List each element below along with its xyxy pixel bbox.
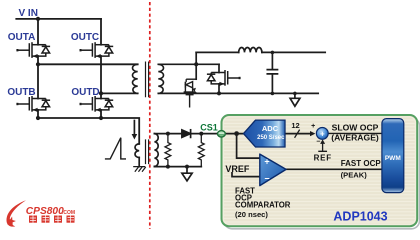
diode D1 xyxy=(182,130,191,137)
wire Q5 drain vertical xyxy=(218,64,220,72)
node Q5 source junction xyxy=(217,91,221,95)
wire bridge bottom rail xyxy=(38,118,139,144)
svg-text:+: + xyxy=(264,157,269,167)
node cap bottom junction xyxy=(271,92,275,96)
node ground stub junction xyxy=(293,92,297,96)
wire T2 primary to ground xyxy=(138,158,140,167)
wire node B to transformer primary bottom xyxy=(101,92,138,94)
wire OUTA drain xyxy=(37,19,39,45)
wire top VIN rail xyxy=(16,18,101,20)
op-amp comparator U2 xyxy=(260,154,286,186)
svg-text:250 S/sec: 250 S/sec xyxy=(257,135,285,141)
resistor R3 xyxy=(165,134,171,167)
watermark CPS800 logo xyxy=(7,200,76,226)
wire CS top xyxy=(154,133,217,135)
node B junction xyxy=(99,91,103,95)
arrow into summing node xyxy=(310,131,315,136)
svg-text:(AVERAGE): (AVERAGE) xyxy=(331,132,379,142)
svg-text:OUTC: OUTC xyxy=(71,32,99,43)
node CS1 terminal xyxy=(218,131,226,137)
wire CS1 into box xyxy=(218,133,244,135)
node VIN junction xyxy=(36,17,40,21)
ADP1043 green box xyxy=(222,115,420,229)
wire Q6 drain vertical xyxy=(195,52,197,79)
red isolation dashed line xyxy=(149,2,151,229)
wire ADC output bus xyxy=(285,133,312,135)
svg-text:COMPARATOR: COMPARATOR xyxy=(235,201,291,210)
svg-text:OUTB: OUTB xyxy=(7,87,35,98)
svg-text:(PEAK): (PEAK) xyxy=(341,171,368,180)
wire OUTD source xyxy=(100,110,102,118)
transformer T2 secondary winding xyxy=(154,134,158,167)
inductor L1 xyxy=(239,48,262,53)
wire Q5 source vertical xyxy=(218,84,220,94)
wire OUTC drain xyxy=(100,19,102,45)
svg-text:−: − xyxy=(264,173,269,183)
svg-text:ADP1043: ADP1043 xyxy=(333,210,387,224)
svg-text:+: + xyxy=(320,129,325,138)
transformer T1 secondary winding xyxy=(158,64,163,93)
transistor OUTA xyxy=(16,42,50,58)
capacitor C1 xyxy=(267,52,277,93)
transistor OUTD xyxy=(80,96,114,112)
svg-text:CPS800: CPS800 xyxy=(26,206,64,217)
svg-text:PWM: PWM xyxy=(385,155,401,162)
svg-text:FAST OCP: FAST OCP xyxy=(341,159,382,168)
svg-text:OUTD: OUTD xyxy=(71,87,99,98)
ground T2 earth xyxy=(134,167,146,172)
svg-text:ADC: ADC xyxy=(262,124,279,133)
transformer T2 core xyxy=(146,140,149,164)
PWM block xyxy=(382,119,404,193)
wire node A to transformer primary top xyxy=(38,63,138,65)
wire VREF to comparator minus input xyxy=(232,173,260,177)
transistor OUTB xyxy=(16,96,50,112)
transformer T2 primary winding xyxy=(135,144,139,158)
wire OUTB source xyxy=(37,110,39,118)
node R4 top junction xyxy=(199,132,203,136)
wire primary current arrow xyxy=(133,121,135,136)
ground output xyxy=(290,93,300,106)
bus slash 12 xyxy=(295,130,299,137)
transformer T1 primary winding xyxy=(132,64,137,93)
op-amp ADC block xyxy=(244,120,286,147)
wire OUTC source to OUTD drain xyxy=(100,56,102,99)
svg-text:+: + xyxy=(311,123,315,130)
node R3 bottom junction xyxy=(166,165,170,169)
node cap top junction xyxy=(271,51,275,55)
wire secondary top xyxy=(158,63,219,65)
wire output bottom rail xyxy=(158,92,318,94)
svg-text:.COM: .COM xyxy=(62,210,75,216)
node secondary top junction xyxy=(194,62,198,66)
node R3 top junction xyxy=(166,132,170,136)
REF arrow xyxy=(319,144,327,152)
transistor Q6 sync rectifier xyxy=(184,79,197,107)
svg-text:REF: REF xyxy=(314,153,332,162)
ground CS triangle xyxy=(182,167,192,181)
waveform sawtooth symbol xyxy=(106,138,126,159)
svg-text:SLOW OCP: SLOW OCP xyxy=(332,123,379,133)
node A junction xyxy=(36,62,40,66)
node OUTD source junction xyxy=(99,116,103,120)
node CS1 inner junction xyxy=(234,131,239,136)
svg-text:V IN: V IN xyxy=(18,8,37,19)
wire OUTA source to node A xyxy=(37,56,39,64)
wire CS bottom xyxy=(154,166,201,168)
svg-text:(20 nsec): (20 nsec) xyxy=(235,210,268,219)
wire OUTB drain xyxy=(37,64,39,98)
transistor Q5 sync rectifier xyxy=(207,70,241,86)
summing node circle xyxy=(316,127,328,139)
svg-text:12: 12 xyxy=(291,121,299,130)
wire output top rail left xyxy=(196,51,239,53)
svg-text:VREF: VREF xyxy=(225,164,250,174)
svg-text:−: − xyxy=(316,139,320,146)
wire output top rail right xyxy=(262,51,325,53)
resistor R4 xyxy=(198,134,204,167)
wire comparator output to PWM xyxy=(286,168,382,170)
transistor OUTC xyxy=(80,42,114,58)
wire summing node to PWM xyxy=(328,132,382,134)
transformer T1 core xyxy=(146,62,149,98)
svg-text:CS1: CS1 xyxy=(200,123,218,133)
svg-text:OUTA: OUTA xyxy=(8,32,36,43)
node OUTB source junction xyxy=(36,116,40,120)
node CS ground junction xyxy=(185,165,189,169)
wire to comparator plus input xyxy=(237,134,260,159)
